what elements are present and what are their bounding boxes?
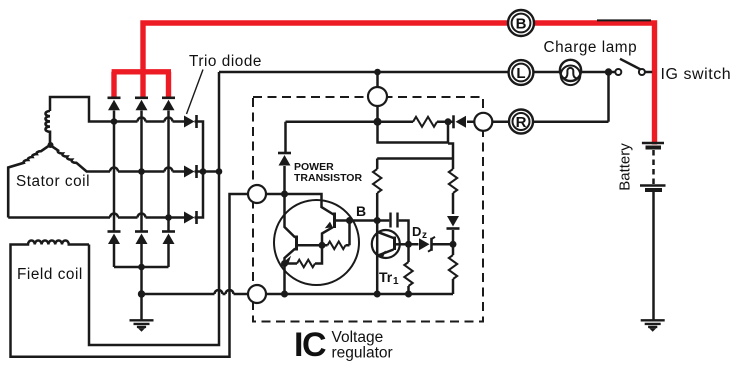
- svg-text:Battery: Battery: [617, 143, 634, 191]
- svg-text:z: z: [422, 230, 427, 241]
- svg-text:IG switch: IG switch: [661, 66, 732, 83]
- svg-text:B: B: [516, 15, 527, 32]
- svg-text:TRANSISTOR: TRANSISTOR: [294, 172, 362, 184]
- svg-text:Charge lamp: Charge lamp: [544, 39, 638, 56]
- svg-text:D: D: [412, 224, 421, 239]
- svg-text:B: B: [356, 203, 366, 219]
- svg-text:Voltage: Voltage: [332, 329, 384, 346]
- svg-text:L: L: [516, 65, 525, 82]
- svg-text:IC: IC: [294, 326, 326, 364]
- svg-text:Tr: Tr: [379, 269, 393, 285]
- svg-text:regulator: regulator: [332, 345, 393, 362]
- svg-text:Stator coil: Stator coil: [16, 173, 90, 190]
- svg-text:1: 1: [393, 276, 399, 287]
- svg-text:R: R: [516, 114, 527, 131]
- svg-text:Trio diode: Trio diode: [189, 53, 262, 70]
- svg-text:Field coil: Field coil: [17, 266, 83, 283]
